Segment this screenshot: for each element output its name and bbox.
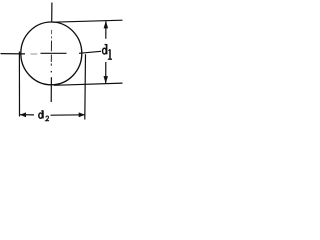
horizontal centerline center segment <box>41 52 67 54</box>
horizontal centerline right stub to d1 label <box>79 51 101 53</box>
left extension line (d2) <box>18 52 20 117</box>
vertical centerline top segment <box>51 3 53 23</box>
label d2 letter d <box>39 110 43 118</box>
label d1 subscript 1 <box>108 49 112 59</box>
horizontal centerline faint dashes <box>31 53 38 55</box>
circle (sphere outline) <box>21 22 82 85</box>
top extension line (d1 upper bound) <box>53 20 123 22</box>
d2 dimension line left segment <box>20 114 34 116</box>
vertical centerline faint upper dashes <box>51 30 53 39</box>
vertical centerline bottom segment <box>50 77 52 102</box>
d2 left arrowhead <box>20 112 26 117</box>
horizontal centerline left segment <box>1 53 26 55</box>
d2 dimension line right segment <box>51 114 85 116</box>
d2 right arrowhead <box>79 112 85 117</box>
d1 down arrowhead <box>104 76 109 83</box>
label d2 subscript 2 <box>46 116 49 121</box>
right extension line (d2) <box>84 54 87 119</box>
d1 dimension line lower shaft <box>105 62 107 83</box>
d1 up arrowhead <box>104 21 109 29</box>
d1 dimension line upper shaft <box>105 21 107 39</box>
bottom extension line (d1 lower bound) <box>54 83 123 85</box>
label d1 letter d <box>103 44 107 54</box>
vertical centerline dot <box>50 71 52 73</box>
vertical centerline dashes inside circle <box>50 41 52 66</box>
